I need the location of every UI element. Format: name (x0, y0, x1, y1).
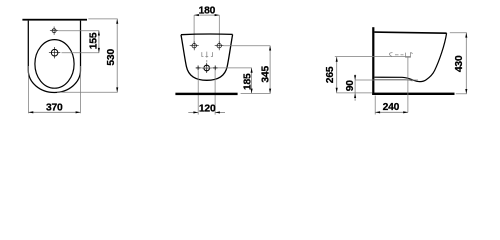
bottom extension line (57, 91, 118, 93)
arrow down 345 (269, 89, 271, 94)
arrow up 185 (251, 68, 253, 73)
wall thick vertical (372, 27, 374, 95)
floor thick line right (372, 93, 454, 95)
arrow down 155 (98, 48, 100, 53)
svg-text:180: 180 (199, 5, 216, 16)
dimension 155 line (98, 31, 100, 53)
dimension 240 line (375, 111, 408, 113)
extension 180 left (193, 15, 195, 43)
underside inner line (375, 80, 413, 81)
svg-text:530: 530 (106, 49, 117, 66)
extension 240 left (374, 96, 376, 115)
tap hole crosshair small (50, 27, 58, 35)
dimension 370 line (29, 111, 81, 113)
side hole plus left (196, 66, 201, 71)
arrow down 185 (251, 89, 253, 94)
mounting hole crosshair right (215, 41, 224, 50)
dimension 185 line (251, 68, 253, 94)
rim top line (374, 32, 446, 33)
arrow up 155 (98, 31, 100, 36)
mounting hole crosshair left (190, 41, 199, 50)
leader from big crosshair (62, 52, 100, 54)
extension 120 left (197, 71, 199, 115)
arrow right 180 (215, 14, 220, 16)
floor thick line middle (175, 93, 237, 95)
extension 370 left (27, 66, 29, 113)
svg-text:240: 240 (383, 102, 400, 113)
extension 370 right (80, 66, 82, 113)
arrow down 530 (116, 87, 118, 92)
arrow up 265 (336, 57, 338, 62)
svg-text:345: 345 (261, 66, 272, 83)
svg-text:155: 155 (88, 32, 99, 49)
svg-text:120: 120 (199, 104, 216, 115)
horizontal line through holes / leader to 185 (196, 67, 252, 69)
extension 180 right (218, 15, 220, 43)
svg-text:430: 430 (454, 55, 465, 72)
leader from small crosshair (59, 30, 100, 32)
dimension 120 line left tail (188, 111, 198, 113)
dimension 120 line right tail (215, 111, 225, 113)
arrow left 180 (194, 14, 199, 16)
dimension 90 line (354, 75, 356, 101)
arrow up 530 (116, 19, 118, 24)
dimension 180 line (194, 14, 219, 16)
tap hole crosshair center (202, 63, 212, 73)
center dash (206, 60, 208, 63)
arrow left 240 (375, 111, 380, 113)
baseline extension to dims (241, 92, 271, 94)
leader mounting hole to 345 (223, 45, 270, 47)
drain hidden detail (389, 53, 412, 58)
arrow 90 top (outside, points down) (354, 75, 356, 80)
extension 430 top (450, 32, 467, 34)
dimension 345 line (269, 46, 271, 94)
svg-text:370: 370 (46, 102, 63, 113)
svg-text:265: 265 (325, 66, 336, 83)
drain centerline / 240 extension right (407, 58, 409, 113)
fixture outline front (181, 34, 233, 80)
arrow up 345 (269, 46, 271, 51)
bowl ellipse (35, 40, 74, 89)
arrow up 430 (465, 33, 467, 38)
profile outline (375, 33, 447, 82)
arrow right 370 (76, 111, 81, 113)
svg-text:90: 90 (345, 80, 356, 92)
arrow 120 left (points right) (193, 111, 198, 113)
arrow 120 right (points left) (215, 111, 220, 113)
baseline extension left (336, 92, 372, 94)
bowl hole crosshair big (49, 47, 60, 58)
arrow right 240 (403, 111, 408, 113)
arrow down 265 (336, 88, 338, 93)
svg-text:185: 185 (243, 73, 254, 90)
wall line (top thick) (22, 19, 87, 21)
arrow down 430 (465, 89, 467, 94)
extension 430 bottom (456, 93, 467, 95)
arrow left 370 (29, 111, 34, 113)
extension 120 right (214, 71, 216, 115)
wall top extension line (88, 18, 117, 20)
dimension 530 line (116, 19, 118, 92)
bidet outline plan (28, 21, 80, 93)
dimension 430 line (465, 33, 467, 94)
side hole plus right (213, 66, 218, 71)
dimension 265 line (336, 57, 338, 93)
arrow 90 bottom (outside, points up) (354, 93, 356, 98)
extension 265 top (335, 56, 411, 58)
overflow bracket symbol (202, 52, 213, 58)
extension 90 top (355, 79, 418, 81)
